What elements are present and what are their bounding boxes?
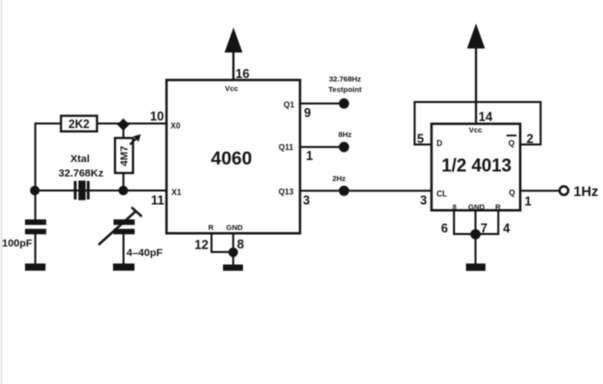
svg-text:9: 9 xyxy=(304,106,311,120)
pin 6 label xyxy=(441,222,448,236)
ground under 4013 xyxy=(466,264,486,271)
svg-text:Q: Q xyxy=(508,139,514,148)
pin 8 label (4060) xyxy=(237,238,244,252)
svg-text:Testpoint: Testpoint xyxy=(328,85,362,94)
wire: pin 9 to testpoint xyxy=(300,103,342,105)
wire: D to Q-bar feedback bracket xyxy=(415,102,541,145)
svg-text:Vcc: Vcc xyxy=(469,126,482,135)
pin 7 label xyxy=(481,222,488,236)
svg-text:1: 1 xyxy=(306,149,313,163)
svg-text:X1: X1 xyxy=(172,188,182,197)
svg-text:10: 10 xyxy=(150,110,164,124)
pin 1 label (4013) xyxy=(525,195,532,209)
capacitor 100pF xyxy=(2,219,46,264)
node: 8Hz point xyxy=(338,130,352,152)
node: 6/7/4 junction xyxy=(470,229,480,239)
pin 16 label xyxy=(236,67,250,81)
svg-text:Q11: Q11 xyxy=(279,143,294,152)
svg-text:4: 4 xyxy=(503,222,510,236)
svg-text:4060: 4060 xyxy=(211,148,252,169)
wire: vertical through 4M7 xyxy=(122,124,124,191)
svg-text:8: 8 xyxy=(452,202,456,211)
svg-text:16: 16 xyxy=(236,67,250,81)
node: X0 junction (diamond) xyxy=(117,118,129,130)
node: crystal right junction xyxy=(119,186,129,196)
pin 10 label xyxy=(150,110,164,124)
svg-text:Q: Q xyxy=(509,189,515,198)
pin 9 label xyxy=(304,106,311,120)
svg-text:2Hz: 2Hz xyxy=(332,174,346,183)
node: pin12/8 junction xyxy=(228,248,238,258)
wire: crystal row horizontal to X1 xyxy=(35,190,167,192)
svg-text:1: 1 xyxy=(525,195,532,209)
svg-text:14: 14 xyxy=(479,110,493,124)
svg-text:12: 12 xyxy=(195,238,209,252)
IC U2 1/2 4013 xyxy=(432,124,521,212)
svg-text:100pF: 100pF xyxy=(2,238,33,250)
wire: top-left loop horizontal to X0 xyxy=(35,123,167,125)
svg-text:Xtal: Xtal xyxy=(70,153,89,165)
svg-text:2K2: 2K2 xyxy=(68,119,89,131)
crystal Xtal 32.768Kz xyxy=(59,153,104,200)
node: 32.768Hz testpoint xyxy=(328,75,362,109)
pin 4 label xyxy=(503,222,510,236)
svg-text:4–40pF: 4–40pF xyxy=(127,247,164,259)
pin 14 label xyxy=(479,110,493,124)
pin 1 label xyxy=(306,149,313,163)
IC U1 4060 xyxy=(167,80,301,233)
svg-text:3: 3 xyxy=(420,194,427,208)
wire: pin 1 (8Hz) xyxy=(300,146,342,148)
svg-text:1/2 4013: 1/2 4013 xyxy=(441,156,511,176)
svg-text:GND: GND xyxy=(226,223,243,232)
svg-text:X0: X0 xyxy=(171,122,181,131)
pin 11 label xyxy=(151,194,164,208)
ground under 4060 xyxy=(223,265,243,271)
resistor 2K2 xyxy=(61,116,97,132)
svg-text:3: 3 xyxy=(303,194,310,208)
wire: 4013 pin 7 to ground xyxy=(475,210,477,263)
svg-text:5: 5 xyxy=(417,132,424,146)
node: crystal left junction xyxy=(30,186,40,196)
svg-text:R: R xyxy=(495,202,501,211)
svg-text:2: 2 xyxy=(527,132,534,146)
node: 2Hz point xyxy=(332,174,349,196)
wire: 4060 pin 8 to ground xyxy=(232,233,234,264)
wire: 4013 pin 4 xyxy=(476,210,499,234)
svg-text:32.768Hz: 32.768Hz xyxy=(329,75,361,84)
pin 12 label xyxy=(195,238,209,252)
wire: 4013 pin 6 xyxy=(454,210,476,234)
svg-text:32.768Kz: 32.768Kz xyxy=(59,168,104,180)
svg-text:GND: GND xyxy=(468,202,485,211)
svg-text:CL: CL xyxy=(437,190,448,199)
wire: 4060 pin 12 reset to ground xyxy=(212,233,234,252)
svg-text:7: 7 xyxy=(481,222,488,236)
resistor 4M7 (adjustable) xyxy=(115,134,141,173)
pin 3 label (4013) xyxy=(420,194,427,208)
trimmer capacitor 4-40pF xyxy=(99,207,164,264)
pin 3 label (4060) xyxy=(303,194,310,208)
svg-text:1Hz: 1Hz xyxy=(574,183,599,199)
wire: left vertical from loop to 100pF xyxy=(34,123,36,221)
svg-text:8Hz: 8Hz xyxy=(338,130,352,139)
svg-text:11: 11 xyxy=(151,194,164,208)
power Vcc arrow 4060 xyxy=(225,28,243,81)
svg-text:Vcc: Vcc xyxy=(225,84,238,93)
svg-text:6: 6 xyxy=(441,222,448,236)
ground under 100pF xyxy=(25,264,46,271)
svg-text:4M7: 4M7 xyxy=(118,146,130,167)
svg-text:Q1: Q1 xyxy=(284,101,295,110)
svg-text:8: 8 xyxy=(237,238,244,252)
svg-text:Q13: Q13 xyxy=(278,188,294,197)
wire: Q output to 1Hz terminal xyxy=(520,190,559,192)
svg-text:D: D xyxy=(437,139,443,148)
pin 5 label xyxy=(417,132,424,146)
pin 2 label xyxy=(527,132,534,146)
node: 1Hz output terminal xyxy=(560,183,599,199)
power Vcc arrow 4013 xyxy=(467,24,485,124)
wire: pin 3 Q13 to 4013 CL (2Hz) xyxy=(300,190,432,192)
svg-text:R: R xyxy=(208,223,214,232)
ground under trimmer xyxy=(113,264,135,271)
